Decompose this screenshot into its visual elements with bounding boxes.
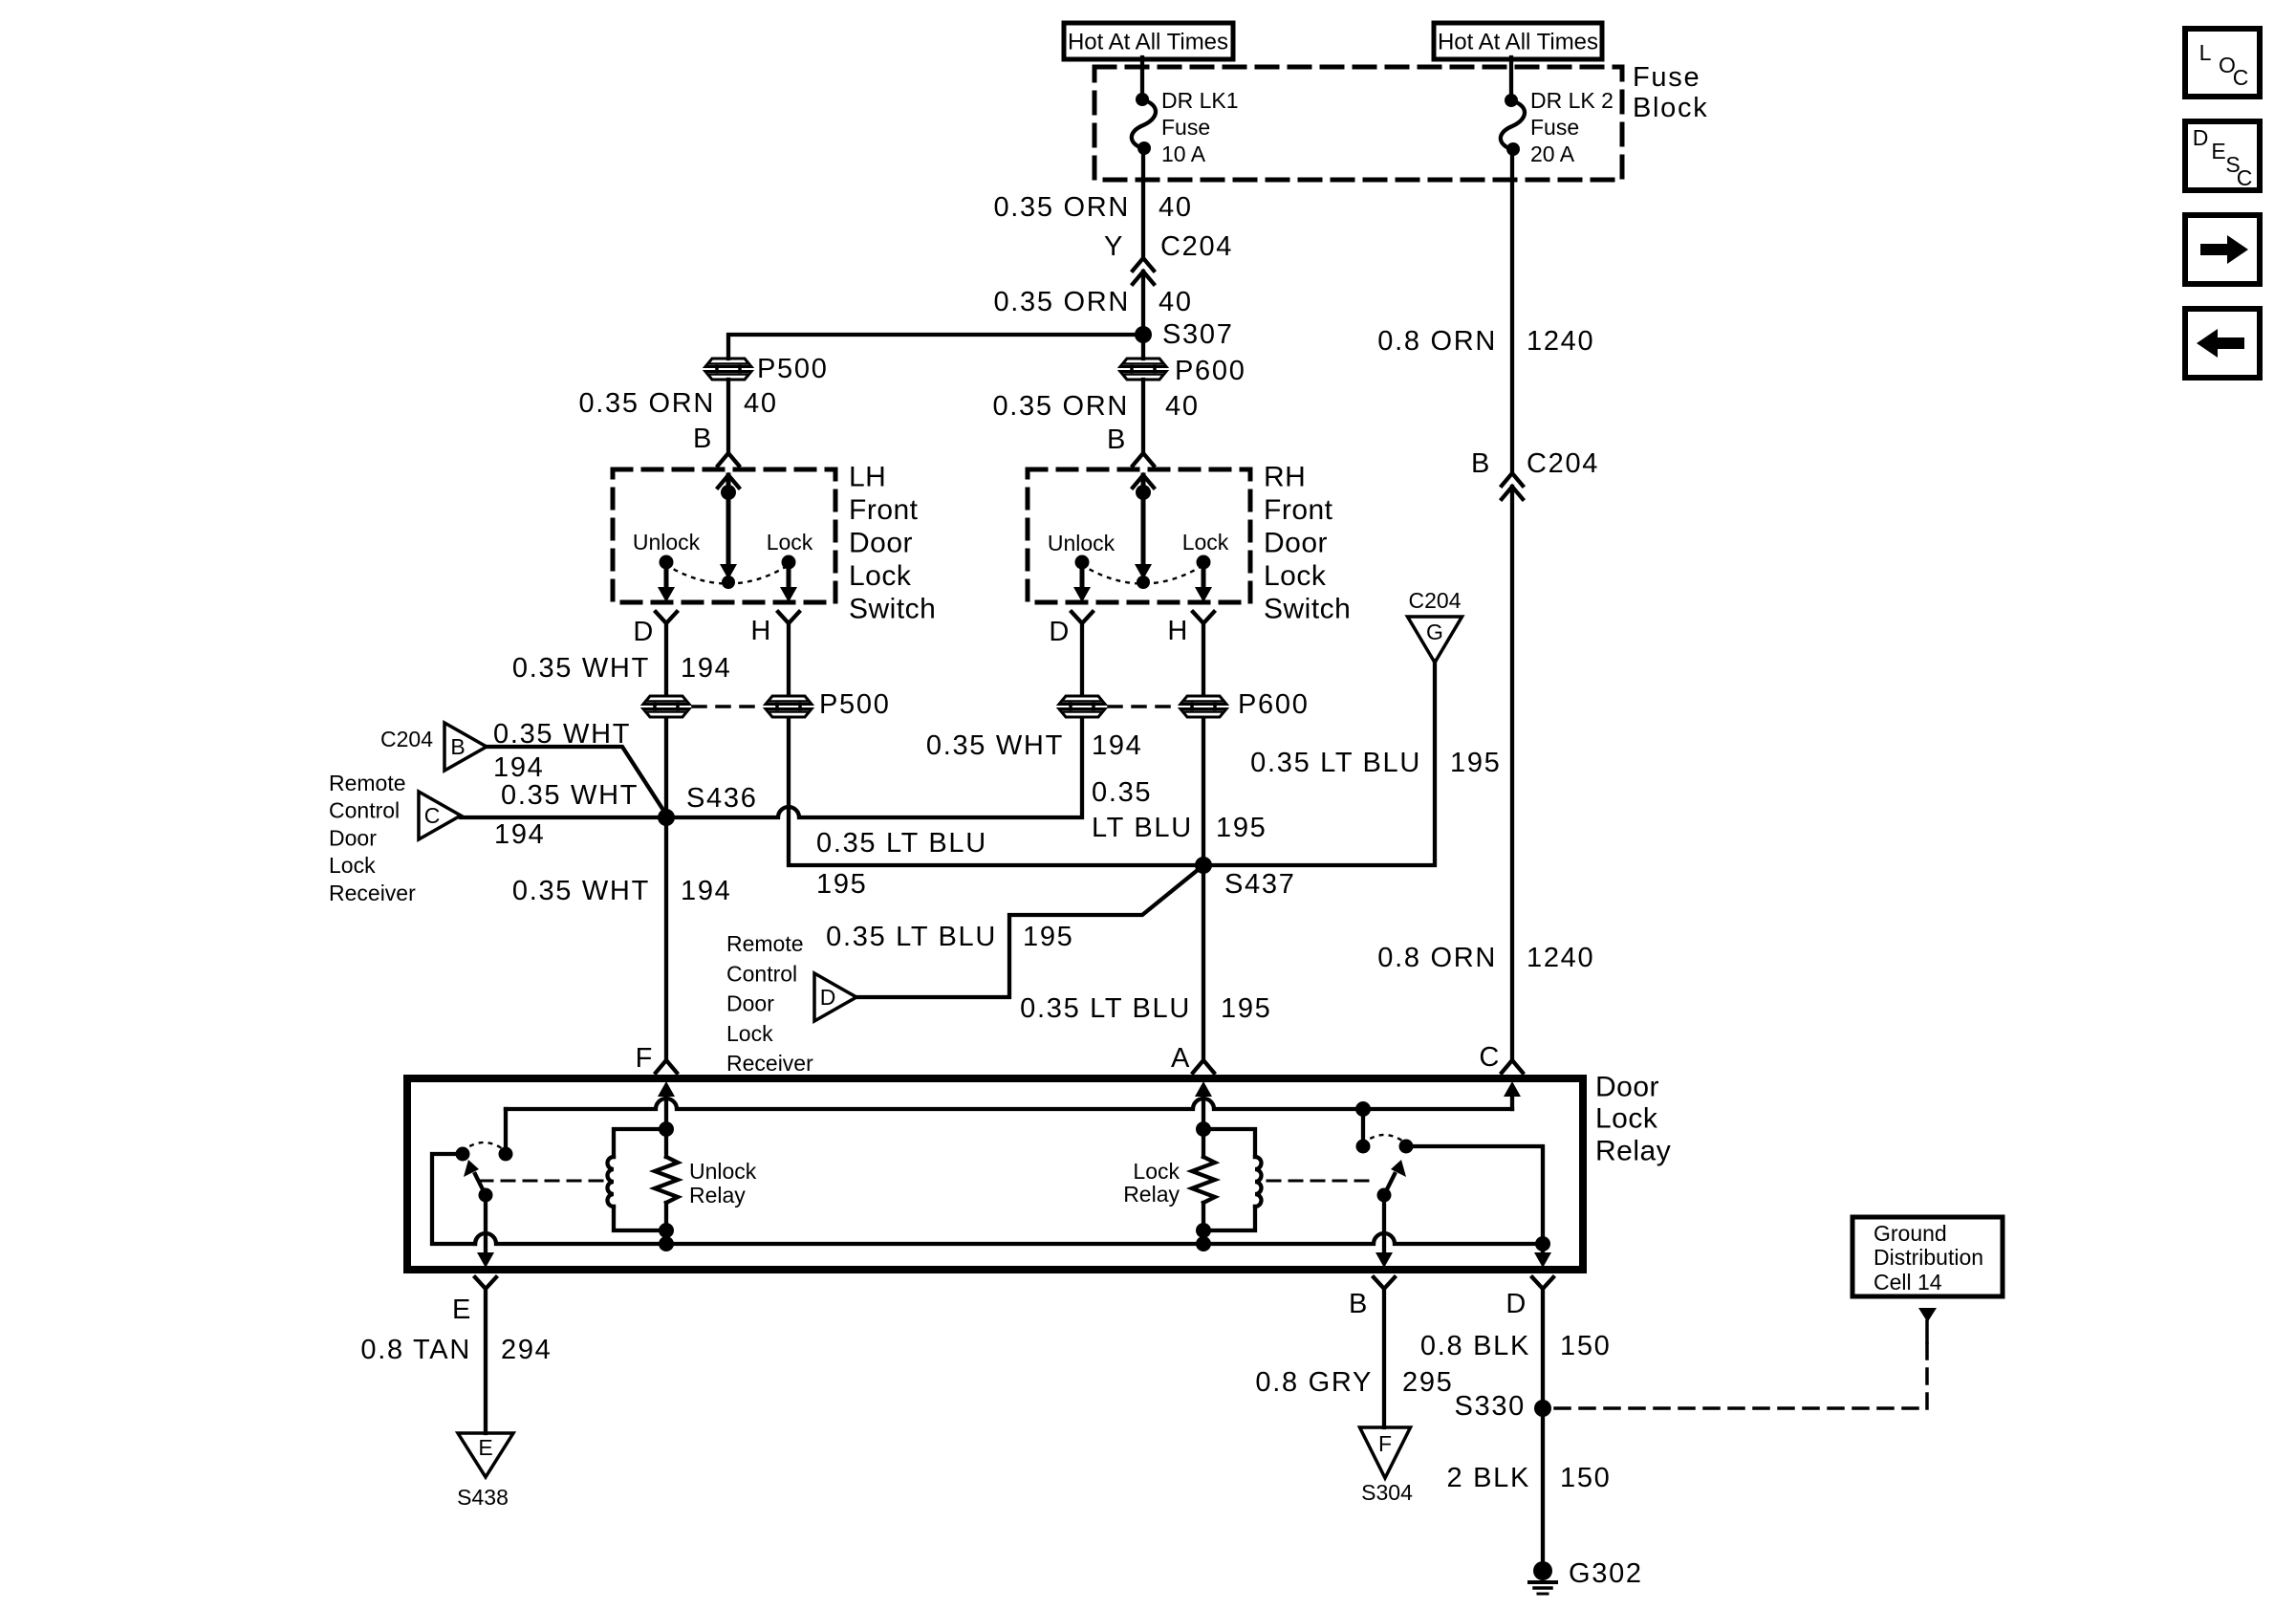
connector triangle G (C204) (1408, 617, 1462, 663)
svg-text:D: D (2193, 125, 2209, 150)
svg-text:194: 194 (1092, 730, 1143, 761)
wire: P600 down to S437 (1202, 718, 1205, 865)
svg-text:Remote: Remote (329, 771, 406, 795)
svg-text:C204: C204 (1409, 588, 1462, 613)
junction S437 (1195, 857, 1212, 874)
svg-text:150: 150 (1560, 1331, 1612, 1361)
svg-text:0.35 ORN: 0.35 ORN (993, 287, 1130, 317)
fuse DR LK1 10A (1132, 93, 1156, 155)
svg-text:Receiver: Receiver (726, 1051, 813, 1076)
svg-text:0.35 LT BLU: 0.35 LT BLU (1020, 993, 1191, 1024)
svg-text:Remote: Remote (726, 931, 804, 956)
svg-text:194: 194 (493, 752, 545, 783)
svg-text:1240: 1240 (1527, 943, 1594, 973)
wire: stub down to right switch contact (1361, 1109, 1365, 1146)
RH switch pin D chevron (1072, 612, 1093, 623)
wire: S436 right with hop over H wire, up through P600 to RH pin D (666, 718, 1082, 817)
svg-text:C: C (2233, 65, 2249, 90)
svg-text:F: F (636, 1043, 654, 1074)
svg-text:Relay: Relay (1595, 1136, 1671, 1167)
svg-text:H: H (750, 616, 772, 646)
LH switch pin H chevron (778, 612, 799, 623)
svg-text:P600: P600 (1238, 689, 1310, 720)
svg-text:Block: Block (1633, 93, 1708, 123)
svg-text:H: H (1167, 616, 1189, 646)
wire: pin E to S438 (484, 1289, 487, 1433)
svg-text:0.35 WHT: 0.35 WHT (926, 730, 1064, 761)
button DESC letters (2193, 125, 2253, 190)
relay: pin B exit arrow (1375, 1195, 1393, 1268)
wire: S437 right and up to connector C204 G (1203, 661, 1435, 865)
grommet P600 (lower, D wire) (1059, 696, 1105, 705)
svg-text:DR LK 2: DR LK 2 (1530, 88, 1614, 113)
svg-text:P500: P500 (819, 689, 891, 720)
svg-text:Distribution: Distribution (1874, 1245, 1983, 1270)
RH switch: input pin arrow and common arm (1133, 475, 1154, 589)
RH front door lock switch dashed box (1028, 469, 1250, 602)
wire: LH pin D down to P500 (664, 623, 668, 695)
wire: fuse2 down to connector C204 pin B (1510, 150, 1514, 473)
svg-text:0.35 WHT: 0.35 WHT (501, 780, 639, 811)
svg-text:Lock: Lock (767, 530, 813, 555)
RH switch pin B chevron (1133, 453, 1154, 466)
relay: pin F entry arrow (658, 1081, 675, 1129)
grommet P600 (lower, H wire) (1180, 696, 1226, 705)
svg-text:0.35 LT BLU: 0.35 LT BLU (826, 922, 997, 952)
relay pin D chevron (1532, 1277, 1553, 1289)
svg-text:A: A (1171, 1043, 1191, 1074)
power label "Hot At All Times" box 2 (1434, 23, 1602, 59)
unlock relay resistor (655, 1129, 678, 1251)
right relay switch (1356, 1135, 1414, 1203)
svg-text:LH: LH (849, 462, 886, 493)
svg-text:194: 194 (681, 653, 732, 684)
LH switch: unlock output arrow (658, 568, 675, 602)
wire: triangle C to S436 (461, 816, 666, 819)
lock relay resistor (1192, 1121, 1215, 1251)
wire: P600 to RH switch pin B (1141, 380, 1145, 453)
svg-text:Lock: Lock (1182, 530, 1229, 555)
svg-text:B: B (1349, 1289, 1369, 1319)
svg-text:40: 40 (1165, 391, 1200, 422)
svg-text:195: 195 (816, 869, 868, 900)
svg-text:0.35 ORN: 0.35 ORN (993, 192, 1130, 223)
svg-text:0.35 WHT: 0.35 WHT (493, 719, 631, 750)
svg-text:0.35 LT BLU: 0.35 LT BLU (816, 828, 987, 859)
svg-text:Unlock: Unlock (633, 530, 701, 555)
svg-text:40: 40 (744, 388, 778, 419)
svg-text:B: B (1107, 424, 1127, 455)
wire: LH H from P500 down then right to junction S437 (789, 718, 1203, 865)
splice triangle F / S304 (1360, 1427, 1411, 1478)
svg-text:Control: Control (726, 961, 797, 986)
svg-text:Lock: Lock (1133, 1159, 1180, 1184)
svg-text:Door: Door (1264, 528, 1328, 559)
ground G302 symbol (1529, 1561, 1556, 1594)
LH front door lock switch dashed box (613, 469, 835, 602)
svg-text:Switch: Switch (849, 594, 936, 625)
connector triangle D (receiver) (814, 973, 856, 1021)
svg-text:E: E (452, 1295, 472, 1325)
wire: RH pin D down to P600 (1080, 623, 1084, 695)
relay pin A chevron (1193, 1060, 1214, 1073)
svg-text:Hot At All Times: Hot At All Times (1438, 30, 1598, 55)
svg-text:G302: G302 (1569, 1558, 1643, 1589)
RH switch: lock output arrow (1195, 568, 1212, 602)
svg-text:Hot At All Times: Hot At All Times (1068, 30, 1228, 55)
wire: S307 down to P600 (1141, 335, 1145, 359)
svg-text:Front: Front (849, 494, 919, 526)
svg-text:Door: Door (849, 528, 913, 559)
svg-text:40: 40 (1159, 287, 1193, 317)
wire: Hot box1 to fuse DR LK1 (1140, 57, 1144, 99)
relay: pin C entry arrow (1504, 1081, 1521, 1109)
svg-text:P600: P600 (1175, 356, 1246, 386)
svg-text:10 A: 10 A (1161, 141, 1206, 166)
LH switch: throw arc (dotted) (666, 565, 789, 584)
LH switch: Lock contact (782, 555, 796, 570)
svg-text:Relay: Relay (689, 1183, 746, 1207)
svg-text:LT BLU: LT BLU (1092, 813, 1193, 843)
door lock relay box (407, 1078, 1583, 1270)
svg-text:Fuse: Fuse (1161, 115, 1210, 140)
dashed reference: S330 to Ground Distribution (1555, 1321, 1927, 1408)
relay: pin D exit arrow (1534, 1244, 1551, 1268)
svg-text:Control: Control (329, 798, 400, 823)
svg-text:Unlock: Unlock (689, 1159, 757, 1184)
reference pointer triangle (1918, 1308, 1937, 1322)
svg-text:Lock: Lock (1595, 1103, 1658, 1135)
LH switch: input pin arrow and common arm (718, 475, 739, 589)
svg-text:195: 195 (1023, 922, 1074, 952)
relay: pin E exit arrow (477, 1195, 494, 1268)
button LOC (2185, 29, 2260, 97)
svg-text:Door: Door (726, 991, 774, 1016)
svg-text:D: D (1505, 1289, 1527, 1319)
svg-text:2 BLK: 2 BLK (1447, 1463, 1531, 1493)
dashed actuation link: lock coil to right switch (1267, 1180, 1375, 1183)
fuse DR LK2 20A (1501, 94, 1525, 156)
splice triangle E / S438 (458, 1433, 513, 1477)
RH switch: unlock output arrow (1073, 568, 1091, 602)
svg-text:0.8 ORN: 0.8 ORN (1377, 943, 1497, 973)
Ground Distribution Cell 14 box (1852, 1217, 2003, 1296)
button LOC letters (2199, 40, 2249, 90)
svg-text:0.35 ORN: 0.35 ORN (992, 391, 1129, 422)
in-line connector C204 (Y) chevrons (1133, 258, 1154, 284)
relay pin C chevron (1502, 1060, 1523, 1073)
junction S436 (658, 809, 675, 826)
svg-text:S330: S330 (1454, 1391, 1526, 1422)
svg-text:C: C (2237, 165, 2253, 190)
svg-text:1240: 1240 (1527, 326, 1594, 357)
svg-text:Receiver: Receiver (329, 881, 416, 905)
wire: pin B to S304 (1382, 1289, 1386, 1427)
junction S330 (1534, 1400, 1551, 1417)
svg-text:F: F (1378, 1431, 1392, 1456)
wire: S330 down to ground G302 (1541, 1408, 1545, 1564)
LH switch: Unlock contact (660, 555, 674, 570)
svg-text:D: D (633, 617, 655, 647)
svg-text:G: G (1426, 620, 1443, 644)
LH switch: lock output arrow (780, 568, 797, 602)
wire: triangle D to S437 (857, 865, 1203, 997)
junction S307 (1135, 326, 1152, 343)
dashed tie between P600 grommets (1109, 705, 1177, 708)
button next (right arrow) (2185, 215, 2260, 284)
wire: triangle B to S436 (487, 747, 666, 815)
wire: rail down to left switch contact (504, 1109, 508, 1154)
wire: S437 down to relay pin A (1202, 865, 1205, 1060)
svg-text:Lock: Lock (1264, 560, 1327, 592)
svg-text:S307: S307 (1162, 319, 1234, 350)
svg-text:S304: S304 (1361, 1480, 1413, 1505)
grommet P500 (lower, D wire) (643, 696, 689, 705)
svg-text:S437: S437 (1224, 869, 1296, 900)
svg-text:DR LK1: DR LK1 (1161, 88, 1239, 113)
svg-text:0.8 TAN: 0.8 TAN (360, 1335, 471, 1365)
button previous (left arrow) (2185, 309, 2260, 378)
RH switch: Lock contact (1197, 555, 1211, 570)
grommet P600 (upper) (1120, 359, 1166, 367)
wire: RH pin H down to P600 (1202, 623, 1205, 695)
svg-text:Door: Door (329, 825, 377, 850)
svg-text:195: 195 (1216, 813, 1267, 843)
svg-text:Fuse: Fuse (1633, 62, 1700, 93)
svg-text:194: 194 (681, 876, 732, 906)
wire: Hot box2 to fuse DR LK2 (1509, 57, 1513, 100)
svg-text:S436: S436 (686, 783, 758, 814)
wire: P500 to LH switch pin B (726, 380, 730, 453)
wire: S307 branch left to P500 drop (728, 335, 1142, 359)
lock relay coil (1203, 1129, 1262, 1230)
wire: left contact to bottom rail (432, 1154, 475, 1244)
svg-text:20 A: 20 A (1530, 141, 1575, 166)
svg-text:194: 194 (494, 819, 546, 850)
wire: C204 to junction S307 (1141, 272, 1145, 335)
svg-text:S438: S438 (457, 1485, 509, 1510)
junction: rail to right switch stub (1355, 1101, 1371, 1117)
svg-text:0.35 LT BLU: 0.35 LT BLU (1250, 748, 1421, 778)
svg-text:C: C (424, 803, 441, 828)
svg-text:B: B (450, 734, 465, 759)
dashed tie between P500 grommets (693, 705, 762, 708)
svg-text:195: 195 (1221, 993, 1272, 1024)
svg-text:E: E (2211, 139, 2225, 163)
svg-text:294: 294 (501, 1335, 552, 1365)
svg-text:C204: C204 (1527, 448, 1599, 479)
wire: right contact right and down to bottom rail (1406, 1146, 1543, 1244)
svg-text:0.8 ORN: 0.8 ORN (1377, 326, 1497, 357)
svg-text:0.8 BLK: 0.8 BLK (1420, 1331, 1530, 1361)
power label "Hot At All Times" box 1 (1064, 23, 1233, 59)
RH switch: Unlock contact (1075, 555, 1090, 570)
svg-text:Y: Y (1104, 231, 1124, 262)
wire: LH pin H down to P500 (787, 623, 791, 695)
svg-text:C204: C204 (1160, 231, 1233, 262)
LH switch pin B chevron (718, 453, 739, 466)
relay: bottom rail with hops (475, 1233, 1543, 1244)
svg-text:Fuse: Fuse (1530, 115, 1579, 140)
button DESC (2185, 121, 2260, 190)
svg-text:150: 150 (1560, 1463, 1612, 1493)
grommet P500 (lower, H wire) (766, 696, 812, 705)
wire: fuse1 down to connector C204 pin Y (1141, 149, 1145, 258)
svg-text:Lock: Lock (726, 1021, 773, 1046)
LH switch pin D chevron (656, 612, 677, 623)
wire: S436 down to relay pin F (664, 817, 668, 1060)
svg-text:D: D (820, 985, 836, 1010)
svg-text:L: L (2199, 40, 2212, 65)
RH switch: throw arc (dotted) (1082, 565, 1203, 584)
svg-text:Door: Door (1595, 1072, 1659, 1103)
left relay switch (456, 1142, 513, 1203)
svg-text:0.8 GRY: 0.8 GRY (1255, 1367, 1373, 1398)
svg-text:B: B (693, 424, 713, 454)
svg-text:0.35: 0.35 (1092, 777, 1152, 808)
svg-text:C: C (1479, 1042, 1501, 1073)
relay pin E chevron (475, 1277, 496, 1289)
unlock relay coil (608, 1121, 675, 1230)
fuse block dashed enclosure (1094, 67, 1622, 180)
connector triangle C (receiver) (419, 792, 461, 839)
svg-text:0.35 WHT: 0.35 WHT (512, 876, 650, 906)
svg-text:Relay: Relay (1123, 1182, 1180, 1207)
svg-text:E: E (478, 1435, 492, 1460)
in-line connector C204 (B) chevrons (1502, 473, 1523, 499)
svg-text:Front: Front (1264, 494, 1333, 526)
svg-text:Switch: Switch (1264, 594, 1351, 625)
relay pin F chevron (656, 1060, 677, 1073)
dashed actuation link: unlock coil to left switch (480, 1180, 602, 1183)
junction: D node on bottom rail (1535, 1236, 1550, 1251)
grommet P500 (upper) (705, 359, 751, 367)
svg-text:295: 295 (1402, 1367, 1454, 1398)
relay pin B chevron (1374, 1277, 1395, 1289)
svg-text:P500: P500 (757, 354, 829, 384)
svg-text:RH: RH (1264, 462, 1306, 493)
svg-text:Ground: Ground (1874, 1221, 1947, 1246)
svg-text:Lock: Lock (329, 853, 376, 878)
wire: pin D down to S330 (1541, 1289, 1545, 1408)
relay: top feed rail with hops (506, 1099, 1512, 1109)
svg-text:B: B (1471, 448, 1491, 479)
RH switch pin H chevron (1193, 612, 1214, 623)
svg-text:0.35 WHT: 0.35 WHT (512, 653, 650, 684)
svg-text:195: 195 (1450, 748, 1502, 778)
svg-text:D: D (1049, 617, 1071, 647)
svg-text:Unlock: Unlock (1048, 531, 1116, 555)
relay: pin A entry arrow (1195, 1081, 1212, 1129)
wire: P500 to junction S436 (664, 718, 668, 817)
connector triangle B (C204) (444, 723, 487, 771)
svg-text:C204: C204 (380, 727, 433, 751)
svg-text:40: 40 (1159, 192, 1193, 223)
svg-text:Cell 14: Cell 14 (1874, 1270, 1942, 1295)
svg-text:0.35 ORN: 0.35 ORN (578, 388, 715, 419)
wire: C204 down to relay pin C (1510, 487, 1514, 1060)
svg-text:Lock: Lock (849, 560, 912, 592)
